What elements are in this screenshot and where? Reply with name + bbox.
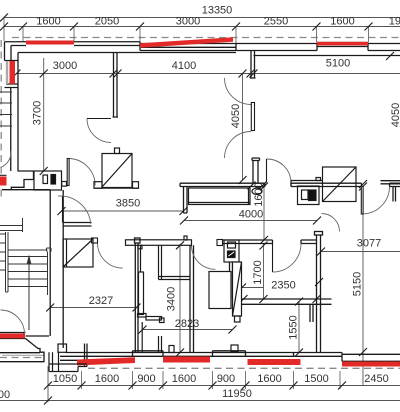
shaft lines left of hallway wall <box>310 304 313 322</box>
ticks interior top dim <box>13 52 395 78</box>
svg-text:00: 00 <box>0 389 10 401</box>
dim line 3400 vertical <box>179 244 181 353</box>
svg-text:1600: 1600 <box>330 16 354 28</box>
wall bottomleft room cap <box>135 238 141 243</box>
dim line 4000 <box>184 220 317 222</box>
svg-text:5150: 5150 <box>352 272 364 296</box>
red window bottom 1 <box>77 357 135 365</box>
door arc WC <box>98 243 123 268</box>
svg-text:2327: 2327 <box>89 295 113 307</box>
dim line 5150 vertical <box>362 187 364 386</box>
svg-text:4000: 4000 <box>239 209 263 221</box>
svg-text:4050: 4050 <box>230 104 242 128</box>
svg-text:900: 900 <box>137 373 155 385</box>
stub above bottom wall x160 <box>159 336 162 353</box>
tick 3077 <box>317 248 325 256</box>
stove black sq <box>309 190 317 201</box>
gray solid line bottom left <box>2 354 44 356</box>
dim line 1550 vertical <box>298 301 300 353</box>
dim line 2327 <box>50 307 136 309</box>
left wall lower <box>11 53 18 172</box>
bottom wall right section <box>342 354 400 361</box>
entry cabinet stub <box>62 182 67 187</box>
svg-text:1550: 1550 <box>288 315 300 339</box>
ext line x140 <box>139 27 141 44</box>
wall stairhall right <box>50 190 63 348</box>
ticks top chain <box>0 14 8 22</box>
stair treads upper flight bottom <box>0 218 23 232</box>
bathroom top wall <box>233 299 321 304</box>
svg-text:1950: 1950 <box>389 16 400 28</box>
red window top right <box>317 42 368 46</box>
ticks 4050 left <box>239 70 247 185</box>
red window left wall <box>10 61 16 84</box>
stair treads lower long <box>8 250 48 287</box>
corridor top wall left segment <box>180 183 265 186</box>
svg-text:2350: 2350 <box>271 280 295 292</box>
ticks 3850 <box>58 207 188 215</box>
ticks bottom chain <box>44 382 346 390</box>
tick bottom total <box>44 397 52 405</box>
corridor top wall mid segment <box>291 183 362 186</box>
entry cabinet black box <box>51 175 56 185</box>
hallway right wall cap <box>315 232 323 236</box>
left wall window frame <box>5 61 19 88</box>
svg-text:2050: 2050 <box>95 16 119 28</box>
dim line total 13350 <box>4 17 400 19</box>
bathroom wall stub right <box>321 299 332 304</box>
ext line x368 <box>368 27 370 43</box>
kitchen counter bump <box>316 178 321 181</box>
dim line 3700 vertical <box>43 58 45 171</box>
porch step <box>58 344 67 352</box>
corridor counter inner line <box>189 202 251 204</box>
wardrobe hall box <box>102 154 132 188</box>
svg-text:13350: 13350 <box>202 5 233 17</box>
dim line 2823 <box>143 329 233 331</box>
door arc room2 lower <box>225 132 252 159</box>
stair treads lower short <box>0 234 6 270</box>
extension line bottom left <box>47 366 49 402</box>
door leaf hall <box>62 196 64 223</box>
wardrobe hall diagonal <box>102 154 132 188</box>
svg-text:3000: 3000 <box>53 60 77 72</box>
wardrobe tab left <box>94 182 102 189</box>
ext line x23 <box>22 27 24 42</box>
door arc room2 upper <box>225 78 252 105</box>
door leaf corridor-hallway <box>272 244 274 273</box>
door arc bottomleft corner <box>1 310 25 334</box>
dim line interior top 3000/4100/5100 <box>17 73 400 75</box>
ticks near kitchen wall <box>248 180 368 190</box>
fridge black sq <box>228 251 236 258</box>
corridor table foot <box>138 245 142 249</box>
corridor table bump <box>184 236 187 240</box>
corridor table bar <box>126 240 192 246</box>
door arc hall <box>58 196 91 224</box>
entry cabinet white box <box>43 175 48 184</box>
bottom wall jambs <box>133 351 343 362</box>
door leaf room1 <box>87 118 111 120</box>
door leaf landing <box>0 174 7 176</box>
svg-text:1050: 1050 <box>53 373 77 385</box>
lower wall edge line <box>141 322 143 353</box>
shelf bottommid b <box>146 317 162 321</box>
stair rail left <box>6 232 9 292</box>
red window top mid slanted <box>140 37 233 48</box>
door arc kitchen right <box>362 187 390 215</box>
wardrobe stub <box>115 148 120 154</box>
corridor counter cap <box>248 188 250 205</box>
ticks 3400 <box>176 241 184 356</box>
shower band <box>233 262 242 316</box>
ext line x236 <box>235 27 237 44</box>
svg-text:3700: 3700 <box>32 101 44 125</box>
svg-text:2450: 2450 <box>364 373 388 385</box>
ext line x316 <box>316 27 318 43</box>
door arc entry <box>68 159 95 186</box>
dim line 3077 <box>321 251 400 253</box>
dim line 1600 kitchen vertical <box>263 184 265 241</box>
svg-text:3400: 3400 <box>166 287 178 311</box>
svg-text:4050: 4050 <box>390 103 400 127</box>
hall jog top <box>2 171 50 190</box>
ticks 2350 <box>240 278 324 303</box>
door jamb cap WC <box>92 238 98 243</box>
stub bottom wall x169 <box>169 346 174 353</box>
red window bottom right <box>342 362 400 367</box>
ext lines bottom chain <box>81 371 83 389</box>
corridor counter <box>189 188 251 205</box>
WC washer inner line <box>66 239 68 267</box>
ticks 2823 <box>139 326 237 334</box>
ticks 3700 <box>40 70 48 176</box>
top wall outer left section <box>5 41 141 43</box>
door leaf kitchen <box>266 159 268 183</box>
top wall mid section <box>140 42 236 51</box>
closet partition horizontal <box>159 277 191 280</box>
closet partition vertical <box>159 245 162 279</box>
shelf bottommid a <box>138 314 147 318</box>
dim line 3850 <box>62 210 184 212</box>
corridor bottom wall right <box>301 240 317 244</box>
stair treads upper flight <box>0 92 12 126</box>
door leaf rooms2-3 <box>251 103 254 131</box>
ticks kitchen 1600 <box>260 183 268 245</box>
corridor top wall right segment <box>390 183 400 186</box>
ext line x74 <box>73 27 75 42</box>
dashed boundary top <box>12 37 400 39</box>
ticks 1700 <box>238 242 268 304</box>
wall bottommid room left <box>190 245 194 352</box>
svg-text:11950: 11950 <box>222 388 252 400</box>
red window bottom 3 <box>248 359 301 365</box>
svg-text:1600: 1600 <box>172 373 196 385</box>
ticks 2327 <box>46 304 140 312</box>
door arc corridor-hallway <box>273 244 302 273</box>
wall hall right <box>184 187 188 213</box>
wall bathroom left <box>230 262 233 299</box>
fridge box <box>224 240 239 262</box>
porch left wall <box>49 352 59 371</box>
bottom wall diagonal jog <box>0 339 45 362</box>
porch bottom <box>49 364 87 372</box>
svg-text:3000: 3000 <box>176 16 200 28</box>
WC top-left wall <box>63 223 91 227</box>
door leaf entry <box>67 159 69 186</box>
svg-text:1600: 1600 <box>36 16 60 28</box>
wardrobe base line <box>94 187 139 189</box>
WC washer diagonal <box>63 239 93 267</box>
bottom wall main <box>60 353 342 361</box>
bottom wall stair section <box>0 333 49 339</box>
fridge diag white <box>229 252 235 256</box>
ticks 1550 <box>295 298 303 357</box>
wall room2|room3 lower <box>252 158 260 184</box>
shelf bottommid c <box>160 318 165 323</box>
svg-text:1600: 1600 <box>257 373 281 385</box>
svg-text:3850: 3850 <box>116 198 140 210</box>
WC washer box <box>63 239 93 267</box>
red mark stair door <box>0 334 25 339</box>
wall room1|room2 <box>113 53 119 118</box>
radiator right <box>381 181 400 202</box>
dim line 1700 vertical <box>263 244 265 300</box>
entry cabinet <box>34 171 62 190</box>
dashed boundary left <box>0 40 2 200</box>
kitchen sink diagonal <box>323 167 357 202</box>
red window top left <box>26 41 74 45</box>
svg-text:5100: 5100 <box>326 58 350 70</box>
kitchen counter top line <box>291 181 323 187</box>
door arc kitchen <box>267 159 292 183</box>
hallway right wall <box>317 235 321 353</box>
door leaves <box>0 103 363 273</box>
wardrobe bottommid leg <box>140 245 142 272</box>
svg-text:2550: 2550 <box>264 16 288 28</box>
wardrobe bottommid <box>139 272 144 315</box>
corridor bottom wall mid <box>217 240 273 244</box>
svg-text:4100: 4100 <box>172 60 196 72</box>
fridge white sq <box>228 242 236 248</box>
shower diagonal <box>233 262 242 316</box>
svg-text:1500: 1500 <box>304 373 328 385</box>
svg-text:1600: 1600 <box>95 373 119 385</box>
door arc room1 <box>87 119 111 143</box>
dim line 4050 left vertical <box>242 74 244 181</box>
stub bottom wall mid <box>231 345 238 352</box>
door arc bottommid room <box>192 245 216 269</box>
stair arrow line <box>28 258 30 330</box>
top wall right section <box>236 44 400 51</box>
top wall inner line right rooms <box>254 55 400 57</box>
stair arrow head <box>27 255 32 265</box>
wall room2|room3 upper <box>250 51 256 79</box>
dim line bottom total 11950 <box>0 400 400 402</box>
ticks 4000 <box>180 217 321 225</box>
door arc hallway right room <box>322 214 340 232</box>
kitchen sink box <box>323 167 357 202</box>
stove white sq <box>302 190 309 200</box>
ext line x4 <box>3 18 5 42</box>
left window gray sash <box>6 61 8 84</box>
door jamb cap bottommid <box>217 240 223 246</box>
red mark stair landing <box>0 177 7 186</box>
counter sink oval <box>252 188 262 194</box>
wall bottomleft room right <box>135 243 138 353</box>
top wall inner line room1 <box>18 52 236 54</box>
wardrobe tab right <box>133 182 139 189</box>
stair rail right <box>47 248 52 295</box>
top wall second line left <box>11 45 140 47</box>
dashed boundary bottom right <box>88 367 400 369</box>
svg-text:1700: 1700 <box>252 260 264 284</box>
door leaf kitchen right <box>361 187 363 215</box>
svg-text:900: 900 <box>217 373 235 385</box>
dim line 1700 end stub <box>240 287 264 289</box>
svg-text:3077: 3077 <box>357 238 381 250</box>
bathroom box <box>209 272 231 309</box>
stove box <box>298 186 320 205</box>
top window frame right <box>317 43 368 51</box>
shower foot <box>235 316 241 322</box>
red window bottom 2 <box>163 357 210 363</box>
left wall outer <box>5 42 12 61</box>
porch right wall <box>85 344 88 367</box>
dim line bottom chain <box>48 385 400 387</box>
dim line top chain <box>4 26 400 28</box>
door arc landing <box>1 151 12 168</box>
svg-text:2823: 2823 <box>175 318 199 330</box>
ticks 5150 <box>359 183 367 357</box>
dashed boundary bottom left <box>0 357 44 359</box>
